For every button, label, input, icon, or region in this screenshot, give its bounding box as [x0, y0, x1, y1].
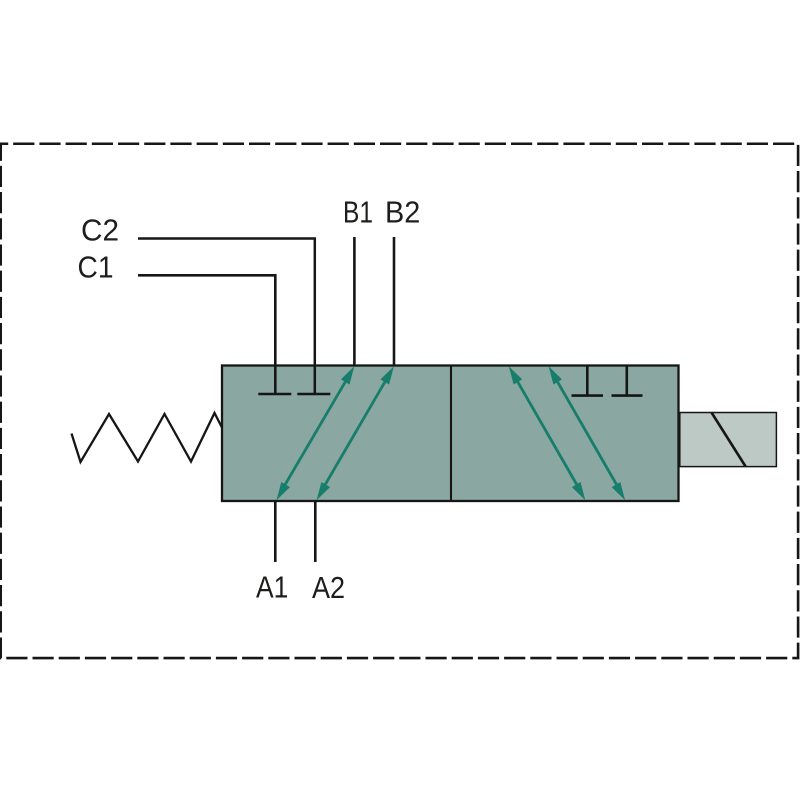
- port line C2: [138, 239, 315, 395]
- chamber divider: [450, 366, 452, 502]
- actuator diagonal lever line: [712, 413, 746, 467]
- dashed enclosure border: [1, 144, 798, 658]
- port line A1: [274, 501, 277, 562]
- svg-text:B1: B1: [343, 195, 373, 230]
- valve body (two-position body): [222, 366, 679, 502]
- actuator box (pilot actuator, right): [680, 413, 777, 467]
- blocked port T (right chamber, second): [625, 366, 628, 396]
- port line B1: [353, 237, 356, 366]
- blocked port T-bar for C1: [258, 393, 291, 396]
- flow arrow R2 (double-headed, right chamber): [549, 366, 626, 500]
- flow arrow R1 (double-headed, right chamber): [509, 366, 586, 500]
- flow arrow L2 (B2 to A2, double-headed): [317, 366, 394, 500]
- flow arrow L1 (B1 to A1, double-headed): [277, 366, 355, 500]
- port line A2: [314, 501, 317, 562]
- port line B2: [393, 237, 396, 366]
- svg-text:C2: C2: [81, 213, 119, 248]
- spring (return spring on left): [72, 413, 223, 462]
- blocked port T (right chamber, first): [586, 366, 589, 396]
- svg-text:A2: A2: [312, 570, 345, 605]
- port line C1: [138, 275, 275, 394]
- blocked port T-bar for C2: [297, 393, 330, 396]
- svg-text:C1: C1: [78, 250, 114, 285]
- svg-text:A1: A1: [256, 570, 288, 605]
- svg-text:B2: B2: [385, 195, 420, 230]
